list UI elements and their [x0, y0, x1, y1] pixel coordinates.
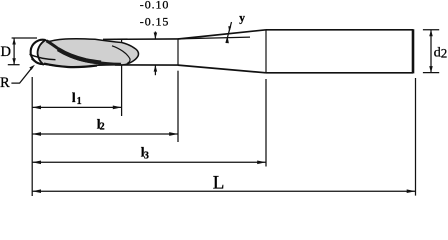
svg-text:2: 2	[100, 122, 105, 133]
d2 dimension	[423, 29, 439, 31]
svg-text:-0.10: -0.10	[140, 0, 170, 12]
flute spiral band middle emphasis	[58, 49, 101, 62]
extension line at tool tip	[31, 77, 33, 196]
ball gash edge arc	[38, 40, 46, 64]
flute end tick	[121, 39, 123, 43]
taper/shank junction line	[265, 30, 267, 73]
angle dimension arrow	[226, 22, 232, 43]
ball heel arc	[32, 59, 45, 65]
D dimension lines and arrows	[12, 37, 37, 39]
extension line at flute end	[121, 65, 123, 116]
ball outline arc	[31, 40, 46, 64]
l3 dimension	[32, 161, 266, 163]
ball nose white face	[31, 40, 46, 64]
neck bottom line	[115, 64, 178, 66]
extension line at shank end	[415, 78, 417, 196]
extension line at taper end	[265, 79, 267, 167]
angle reference line	[178, 37, 250, 39]
svg-text:1: 1	[77, 96, 82, 107]
svg-text:D: D	[1, 44, 11, 60]
shank top line	[266, 29, 413, 31]
svg-text:R: R	[0, 75, 10, 91]
svg-text:l: l	[72, 90, 76, 105]
svg-text:-0.15: -0.15	[140, 15, 170, 29]
shank bottom line	[266, 72, 413, 74]
ball lower face line	[30, 54, 56, 59]
svg-text:L: L	[213, 173, 225, 194]
flute spiral band	[47, 41, 122, 65]
l1 dimension	[32, 106, 121, 108]
flute body (gray)	[38, 39, 139, 67]
svg-text:y: y	[239, 13, 245, 25]
L dimension	[32, 190, 415, 192]
taper top line	[178, 30, 266, 39]
taper bottom line	[178, 65, 266, 73]
flute runout inner line	[112, 46, 130, 63]
l2 dimension	[32, 133, 178, 135]
flute bottom edge emphasis	[44, 64, 97, 68]
tolerance dimension lower arrow	[154, 65, 156, 75]
neck top line	[103, 38, 178, 41]
R leader arrow	[11, 66, 33, 83]
extension line at neck end	[177, 71, 179, 142]
tolerance dimension upper arrow	[154, 32, 156, 40]
shank right edge (thick)	[412, 29, 415, 73]
svg-text:d2: d2	[434, 46, 448, 61]
neck/taper junction line	[177, 39, 179, 65]
svg-text:3: 3	[144, 150, 149, 161]
